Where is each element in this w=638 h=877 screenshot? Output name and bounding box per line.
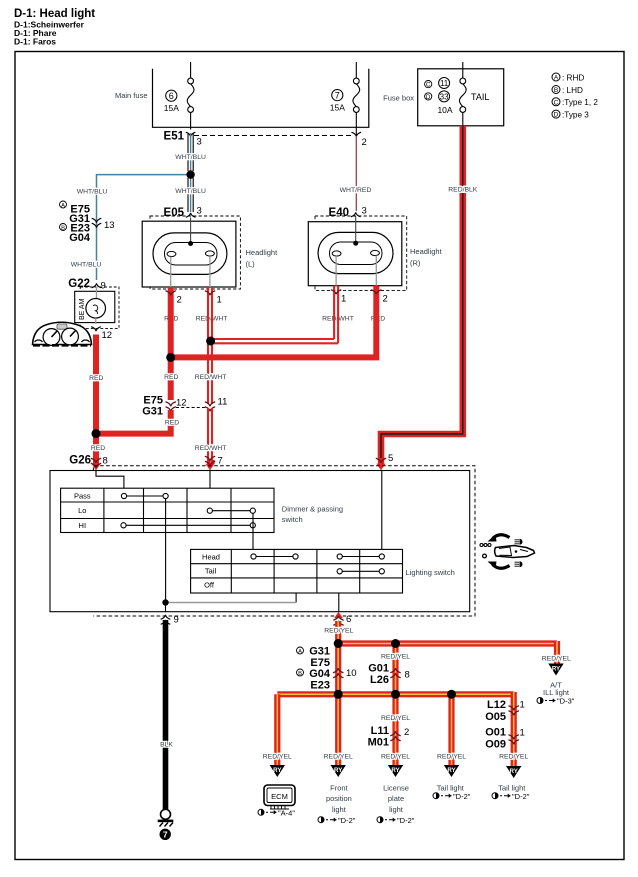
svg-text:Dimmer & passing: Dimmer & passing [282,505,343,514]
svg-text::Type 3: :Type 3 [562,110,589,119]
svg-text:RED/YEL: RED/YEL [381,654,410,661]
svg-text:Tail: Tail [205,567,217,576]
svg-text:8: 8 [405,670,410,681]
svg-text:3: 3 [362,206,367,217]
svg-text:11: 11 [218,397,228,408]
connector E05 pin 3 [164,206,202,220]
eye ref D-2 tail1 [433,792,471,801]
svg-text:G31: G31 [142,406,163,418]
svg-text:E23: E23 [310,679,330,691]
wire RED/BLK TAIL fuse to lighting switch pin 5 [381,126,478,458]
eye ref D-2 license [377,816,415,825]
svg-text:D: D [554,112,559,119]
connector G26 pin 8 arrow [69,455,108,471]
headlight L pin 2 [164,287,182,323]
arrow into switch pin 5 [376,453,393,470]
svg-text:C: C [554,99,559,106]
RY arrow to tail light 2 [506,766,521,778]
svg-text:D-1: Head light: D-1: Head light [14,8,95,20]
svg-text:9: 9 [101,281,106,292]
svg-text:B: B [298,671,302,677]
connector E51 pin 2 [352,132,367,148]
wire RED/WHT 11 down to pin 7 [195,374,227,464]
wire: Pass contact down to junction [165,499,167,603]
svg-text:RED/YEL: RED/YEL [324,628,353,635]
svg-text:ECM: ECM [271,792,288,801]
svg-text:2: 2 [177,295,182,306]
svg-text:BLK: BLK [160,742,173,749]
svg-text:RED: RED [164,374,178,381]
wire BLK to ground [160,620,173,809]
svg-text:33: 33 [440,92,449,101]
svg-text:HI: HI [79,521,87,530]
wire RED/YEL lower bus [277,692,513,767]
svg-text:Pass: Pass [74,491,91,500]
junction node RED left [92,429,101,438]
dashed connector line E51-E40 [194,135,352,137]
svg-text:11: 11 [440,79,449,88]
wire RED/WHT junction down to pin 11 [208,341,212,404]
headlight L component box [142,218,236,288]
instrument cluster icon [33,322,92,345]
svg-text:"A-4": "A-4" [278,809,295,818]
svg-text:Fuse box: Fuse box [383,94,414,103]
svg-text:G04: G04 [69,232,91,244]
connector O01/O09 pin 1 [485,727,525,751]
svg-text:8: 8 [103,456,108,467]
connector G22 pin 9 [68,278,106,292]
wire RED/YEL tail1 column [448,694,454,765]
fuse box (TAIL 10A) [383,69,504,126]
svg-text:light: light [332,805,347,814]
lighting switch lever icon [480,535,535,569]
svg-text:: LHD: : LHD [562,86,583,95]
svg-text:5: 5 [388,453,393,464]
svg-text:RED: RED [91,445,105,452]
wire: battery feed to fuse 7 [355,62,357,78]
junction node RED/WHT [206,337,215,346]
svg-text:O09: O09 [485,738,506,750]
svg-text:License: License [383,784,409,793]
wire: Head contact to junction (gray) [295,593,297,603]
wire RED E75/G31-12 down elbow to G26 wire [96,410,179,434]
svg-text:WHT/BLU: WHT/BLU [71,262,102,269]
wire RED/YEL license column [381,694,410,765]
svg-text:RED: RED [89,375,103,382]
junction node RED/YEL 1 [334,639,343,648]
dashed connector line 12-11 [176,407,206,409]
wire: junction to pin 9 [165,603,167,613]
svg-text:12: 12 [176,398,187,409]
svg-text:E75: E75 [310,657,330,669]
svg-text:RED/YEL: RED/YEL [542,656,571,663]
connector E40 pin 3 [329,206,367,220]
svg-text:Headlight: Headlight [246,248,279,257]
svg-text:RED/YEL: RED/YEL [437,754,466,761]
fuse 6 15A [164,78,194,129]
headlight L label [246,248,279,269]
connector pin 7 arrow [205,456,223,471]
svg-text:"D-2": "D-2" [512,792,530,801]
license plate light label [383,784,409,814]
svg-text:RED/YEL: RED/YEL [381,715,410,722]
svg-text:WHT/BLU: WHT/BLU [175,154,206,161]
svg-text:RED/BLK: RED/BLK [448,187,478,194]
wire RED/WHT bus E05-1 to E40-1 [208,295,338,344]
svg-text:RED/YEL: RED/YEL [381,754,410,761]
svg-text:1: 1 [520,700,525,711]
svg-text:3: 3 [197,137,202,148]
RED/YEL labels above RY arrows [263,754,529,761]
svg-text:WHT/BLU: WHT/BLU [175,188,206,195]
switch assembly box [50,471,470,612]
svg-text:10A: 10A [437,105,452,115]
svg-text:switch: switch [282,515,303,524]
wire WHT/BLU branch to G22 [71,175,187,280]
headlight L dashed connector box [150,216,240,289]
svg-text:"D-2": "D-2" [338,816,356,825]
svg-text:TAIL: TAIL [471,92,489,102]
svg-text:O01: O01 [485,727,506,739]
connector pin 11 [205,397,228,412]
chevrons pin 10 [333,668,357,679]
svg-text:A: A [298,649,302,655]
svg-text:"D-2": "D-2" [397,816,415,825]
connector L11/M01 pin 2 [368,725,410,748]
wire RED/YEL to front position light [335,694,341,765]
junction node lower 1 [334,690,343,699]
connector pin 9 [161,615,179,626]
svg-text:D: D [426,94,431,101]
svg-text:L26: L26 [370,674,389,686]
headlight R pin 2 [371,286,388,323]
svg-text:: RHD: : RHD [562,73,584,82]
wire WHT/BLU E51 to junction [175,133,206,171]
svg-text:1: 1 [520,728,525,739]
svg-text:Headlight: Headlight [410,247,443,256]
ground symbol [158,809,174,826]
wire RED/YEL bus to A/T ILL [338,641,571,664]
svg-text:Front: Front [330,784,348,793]
title: D-1 Head light [14,8,95,47]
svg-text::Type 1, 2: :Type 1, 2 [562,98,598,107]
RY arrow to license plate light [388,765,403,777]
junction node switch output [162,599,168,605]
svg-text:1: 1 [217,295,222,306]
ECM box [264,785,295,809]
svg-text:RED/WHT: RED/WHT [195,445,227,452]
svg-text:Head: Head [202,552,220,561]
svg-text:15A: 15A [330,103,345,113]
svg-text:Lighting switch: Lighting switch [406,568,455,577]
svg-text:12: 12 [102,330,113,341]
headlight R pin 1 [322,286,354,323]
svg-text:WHT/RED: WHT/RED [340,187,372,194]
wire: pin8 to dimmer table [96,471,124,489]
svg-text:B: B [554,87,558,94]
dimmer and passing switch table [61,488,274,532]
eye ref D-2 tail2 [492,792,530,801]
lighting switch assembly dashed box [93,466,475,616]
wire RED E05-2 down [164,296,178,400]
svg-text:B: B [61,226,65,232]
svg-text:(R): (R) [410,259,421,268]
wire RED/YEL G01/L26 branch [381,644,410,695]
connector pin 12 below BEAM [91,327,112,341]
svg-text:Off: Off [204,581,215,590]
connector E75/G31 pin 12 [142,395,186,418]
svg-text:Main fuse: Main fuse [115,91,148,100]
wire WHT/BLU junction to E05 [175,178,206,212]
eye ref D-3 [537,697,575,706]
junction node RED/YEL 2 [391,639,400,648]
svg-text:light: light [389,805,404,814]
wire: pin5 to lighting switch [381,471,383,554]
svg-text:G01: G01 [368,663,389,675]
svg-text:BE AM: BE AM [79,298,86,320]
svg-text:G22: G22 [68,278,90,290]
svg-text:position: position [326,794,352,803]
wire: Tail contact down to pin 6 [338,593,340,612]
TAIL fuse symbol [459,78,466,126]
wire RED BEAM to G26 [89,335,105,457]
svg-text:L12: L12 [487,699,506,711]
svg-text:15A: 15A [164,103,179,113]
svg-text:6: 6 [169,91,174,101]
svg-text:1: 1 [341,294,346,305]
svg-text:A: A [554,75,559,82]
ground id 7 [160,829,171,840]
junction node lower 3 [447,690,456,699]
wire RED/YEL pin6 to junction [324,621,353,644]
BEAM indicator dashed connector box [80,287,119,328]
svg-text:WHT/BLU: WHT/BLU [77,189,108,196]
svg-text:RED/YEL: RED/YEL [499,754,528,761]
legend RHD/LHD/type [552,73,598,119]
svg-text:2: 2 [383,294,388,305]
eye ref D-2 front [318,816,356,825]
junction node lower 2 [391,690,400,699]
svg-text:D-1: Faros: D-1: Faros [14,37,56,47]
svg-text:E51: E51 [164,131,185,143]
RY arrow to front position light [331,765,346,777]
svg-text:6: 6 [346,614,351,625]
svg-text:7: 7 [335,90,340,100]
svg-text:(L): (L) [246,260,256,269]
svg-text:"D-2": "D-2" [453,792,471,801]
svg-text:O05: O05 [485,711,506,723]
wire: pin7 into dimmer table [209,471,211,510]
svg-text:G04: G04 [309,668,331,680]
connector E75/G31 (A) E23/G04 (B) pin 13 [60,201,115,244]
svg-text:L11: L11 [371,725,389,737]
svg-text:plate: plate [388,794,404,803]
wire: battery feed to fuse 6 [190,62,192,78]
headlight R component box [308,217,402,286]
connector G31/E75 (A) G04/E23 (B) pin 10 [297,646,331,692]
arrow RY to A/T ILL light [543,664,570,698]
headlight L pin 1 [196,287,228,323]
svg-text:RED/YEL: RED/YEL [324,754,353,761]
junction node WHT/BLU [186,170,194,178]
svg-text:10: 10 [346,668,357,679]
svg-text:RED/WHT: RED/WHT [195,374,227,381]
svg-text:C: C [426,82,431,89]
connector L12/O05 pin 1 [485,699,525,723]
svg-text:2: 2 [362,137,367,148]
svg-text:RED/YEL: RED/YEL [263,754,292,761]
svg-text:A: A [61,203,65,209]
connector E51 pin 3 [164,131,202,148]
RY arrow to ECM [270,765,285,777]
svg-text:"D-3": "D-3" [557,697,575,706]
connector G01/L26 pin 8 [368,663,410,686]
wire: feed to TAIL fuse [462,62,464,78]
svg-text:13: 13 [104,220,115,231]
svg-text:2: 2 [404,727,409,738]
svg-text:E05: E05 [164,207,185,219]
svg-text:E40: E40 [329,207,349,219]
headlight R dashed connector box [315,216,407,291]
RY arrow to tail light 1 [444,765,459,777]
svg-text:9: 9 [174,615,179,626]
lighting switch table [191,549,403,593]
connector pin 6 arrow out of switch [333,612,351,625]
svg-text:3: 3 [197,206,202,217]
dimmer switch label [282,505,343,525]
front position light label [326,784,352,814]
wire WHT/RED fuse7 to E40 [340,136,372,211]
headlight R label [410,247,443,268]
fuse panel: Main fuse box [115,69,369,128]
fuse 7 15A [330,78,360,135]
svg-text:7: 7 [218,456,223,467]
wire RED/YEL junction1 down [335,644,341,695]
svg-text:G31: G31 [309,646,330,658]
wire: Lo contact to lighting switch Head [252,513,254,554]
BEAM indicator lamp box [75,287,115,325]
svg-text:Lo: Lo [78,506,86,515]
eye ref A-4 [258,809,295,818]
svg-text:M01: M01 [368,736,389,748]
junction node RED [166,353,175,362]
svg-text:7: 7 [163,830,168,840]
svg-text:G26: G26 [69,455,91,467]
wire RED E40-2 elbow bus [171,295,377,357]
svg-text:RED: RED [165,420,179,427]
